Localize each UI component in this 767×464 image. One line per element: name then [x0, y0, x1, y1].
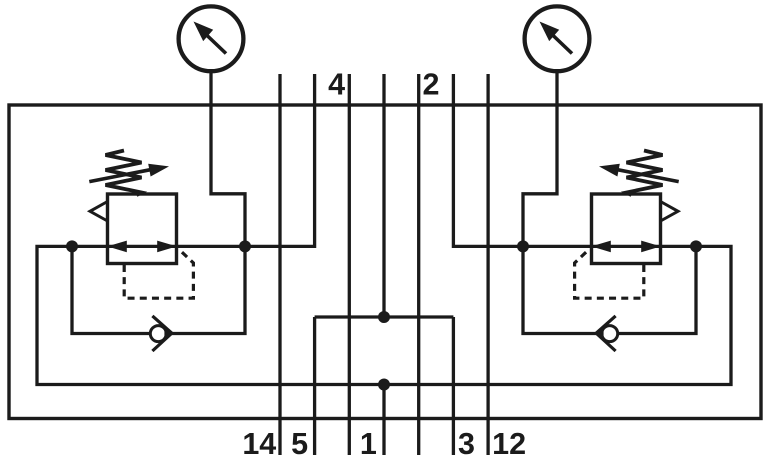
svg-text:1: 1: [360, 427, 377, 461]
svg-text:5: 5: [291, 427, 308, 461]
svg-text:4: 4: [328, 68, 345, 102]
svg-text:12: 12: [492, 427, 526, 461]
svg-text:2: 2: [423, 68, 440, 102]
svg-text:3: 3: [458, 427, 475, 461]
svg-text:14: 14: [242, 427, 276, 461]
